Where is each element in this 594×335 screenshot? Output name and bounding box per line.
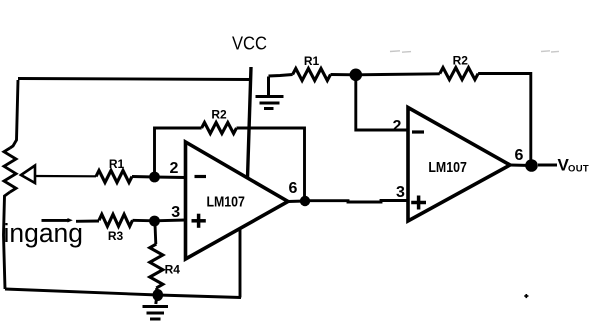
- artifact speck (plus) bottom right: [524, 294, 528, 298]
- svg-text:2: 2: [170, 160, 179, 177]
- wire op-amp U1 V- pin drop to bottom bus: [239, 229, 242, 298]
- node A (R1/R2 junction): [350, 69, 363, 82]
- ground symbol G2 (bottom, below R4): [143, 300, 169, 319]
- svg-text:ingang: ingang: [4, 220, 84, 248]
- wire bottom ground bus: [5, 289, 241, 298]
- svg-text:R4: R4: [165, 263, 181, 277]
- node pin3 U1: [149, 216, 160, 227]
- potentiometer P1 body: [4, 148, 16, 192]
- op-amp U2 triangle: [408, 108, 510, 222]
- wire input stub (ingang): [42, 219, 69, 222]
- wire R1 to node pin2 U1: [132, 177, 186, 178]
- wire R2 to feedback corner and down to U1 output node: [237, 128, 305, 200]
- wire R4 bottom lead: [156, 288, 158, 293]
- wire potentiometer bottom lead: [4, 192, 11, 289]
- wire output node to VOUT: [538, 164, 557, 167]
- resistor R3: [99, 214, 133, 226]
- svg-text:3: 3: [396, 184, 405, 201]
- svg-text:OUT: OUT: [568, 163, 589, 174]
- resistor R1 (second stage, to ground): [293, 69, 331, 81]
- wire node A down to U2 pin2: [356, 75, 408, 130]
- wire top-left horizontal to VCC rail: [18, 79, 250, 80]
- resistor R4: [150, 244, 163, 288]
- wire U1 output to node: [288, 200, 305, 203]
- node U1 output: [300, 196, 310, 206]
- svg-text:VCC: VCC: [232, 33, 267, 54]
- svg-text:LM107: LM107: [206, 194, 245, 211]
- artifact faint smudge top right: [541, 51, 559, 52]
- artifact faint smudge top middle: [390, 51, 411, 52]
- potentiometer wiper arrow: [21, 166, 35, 184]
- resistor R2 (U2 feedback): [440, 68, 478, 80]
- op-amp U1 plus sign: [192, 214, 206, 228]
- svg-text:R2: R2: [211, 108, 227, 122]
- svg-text:R3: R3: [108, 229, 124, 243]
- wire R3 to node pin3 U1: [133, 219, 186, 223]
- resistor R2 (U1 feedback): [202, 123, 237, 134]
- svg-text:R1: R1: [109, 157, 125, 171]
- wire VCC rail vertical to U1 V+ pin: [248, 67, 252, 178]
- wire U2 output to node: [510, 164, 532, 167]
- op-amp U1 minus sign: [195, 175, 207, 178]
- svg-text:3: 3: [171, 204, 180, 221]
- wire feedback U1: node pin2 up and across R2 to output: [155, 128, 202, 177]
- resistor R1 (input): [96, 171, 132, 183]
- svg-text:LM107: LM107: [428, 159, 467, 176]
- ground symbol G1 (below top R1): [256, 77, 284, 109]
- wire R2 right to corner and down to output node: [478, 74, 531, 166]
- wire R4 top lead: [154, 224, 158, 244]
- wire node A to R2 (second stage): [356, 74, 440, 75]
- wire wiper to R1: [35, 175, 96, 178]
- svg-text:6: 6: [289, 180, 298, 197]
- svg-text:2: 2: [393, 118, 402, 135]
- node R4/ground: [153, 289, 164, 301]
- svg-text:6: 6: [515, 147, 524, 164]
- wire R1 to node A: [331, 73, 356, 76]
- node pin2 U1: [149, 172, 160, 183]
- wire U1 output node to U2 pin3: [305, 201, 408, 203]
- op-amp U1 triangle: [186, 142, 289, 259]
- op-amp U2 plus sign: [411, 196, 426, 210]
- wire ground G1 to R1 (top): [269, 75, 293, 77]
- node U2 output: [525, 159, 538, 172]
- wire left vertical lead down to potentiometer: [10, 80, 18, 148]
- svg-text:R2: R2: [453, 54, 469, 68]
- svg-text:R1: R1: [304, 54, 320, 68]
- op-amp U2 minus sign: [412, 130, 424, 133]
